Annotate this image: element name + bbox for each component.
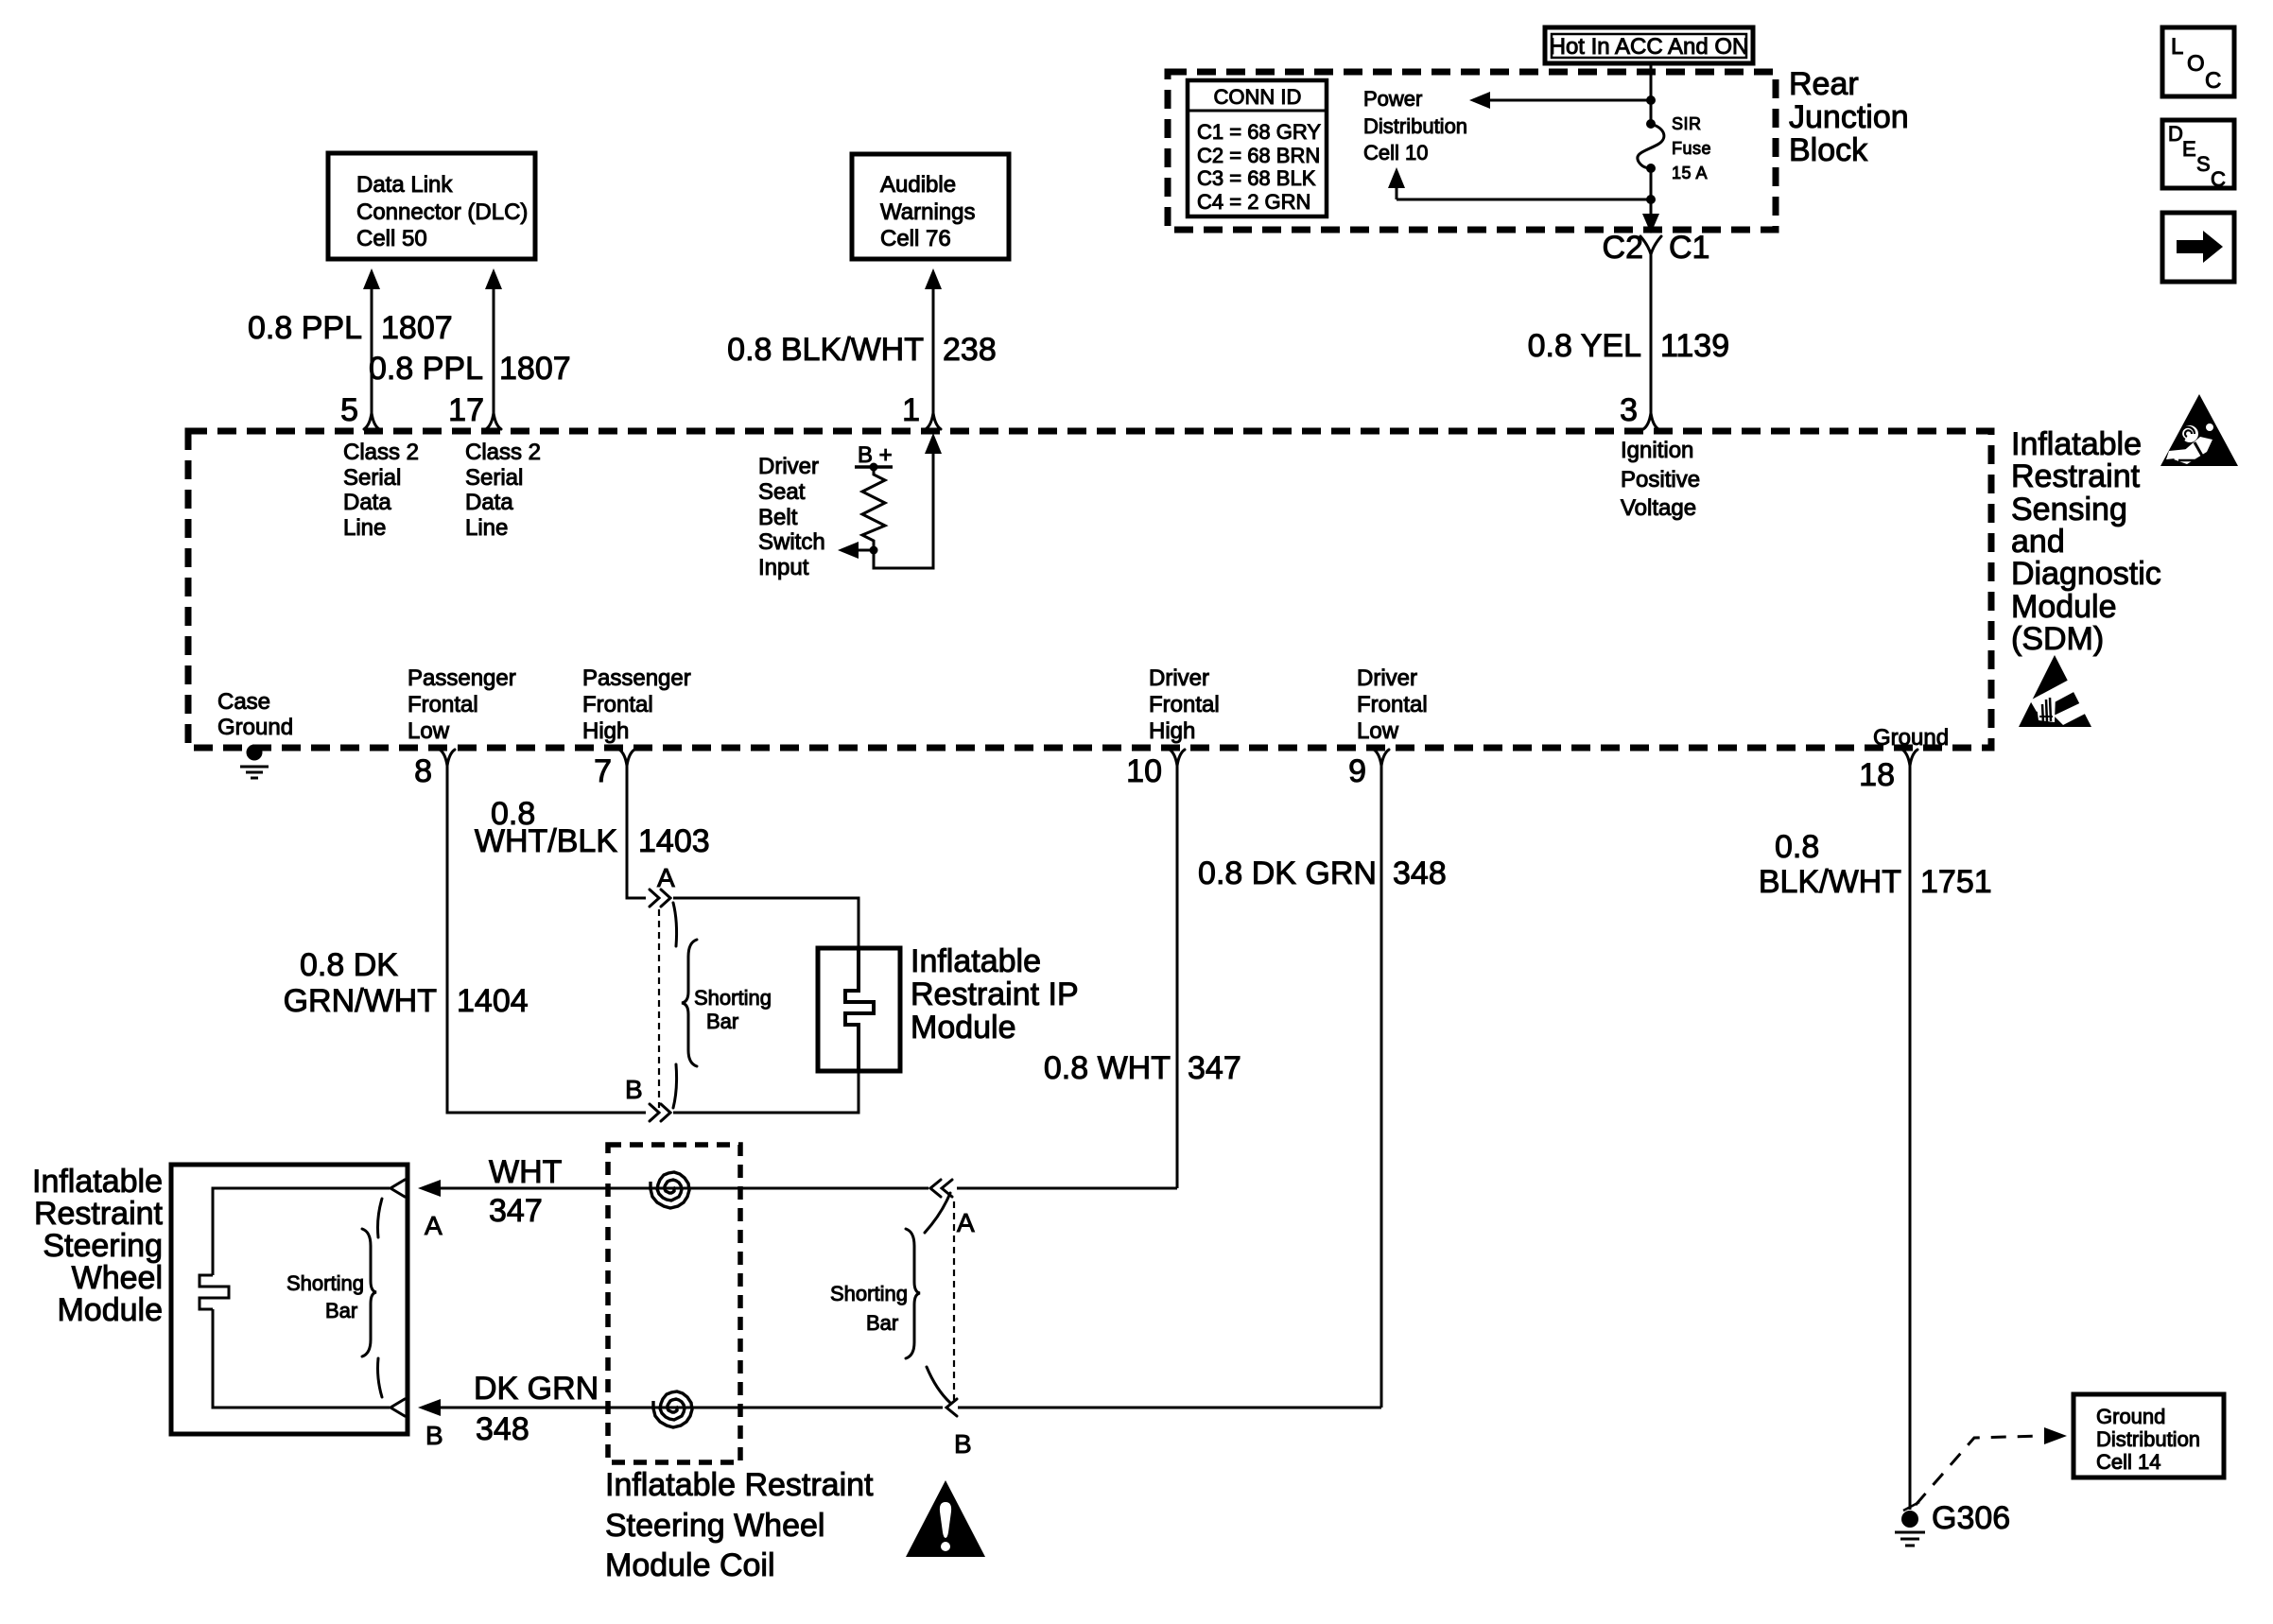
svg-text:C1 = 68 GRY: C1 = 68 GRY — [1197, 120, 1321, 144]
svg-text:348: 348 — [476, 1411, 529, 1447]
svg-text:Line: Line — [465, 515, 508, 541]
svg-text:Line: Line — [343, 515, 386, 541]
svg-text:B: B — [625, 1075, 643, 1104]
svg-text:CONN ID: CONN ID — [1214, 85, 1302, 109]
svg-text:Class 2: Class 2 — [343, 440, 419, 465]
svg-text:Wheel: Wheel — [72, 1260, 163, 1296]
shorting bar dashed line (coil connector) — [953, 1201, 955, 1400]
box: Inflatable Restraint Steering Wheel Module — [32, 1164, 408, 1434]
icon: airbag ESD warning triangle — [2160, 394, 2238, 466]
svg-text:347: 347 — [489, 1193, 543, 1229]
svg-text:Distribution: Distribution — [2096, 1427, 2200, 1451]
wire: arrow to Power Distribution Cell 10 (upper) — [1363, 87, 1651, 164]
svg-text:GRN/WHT: GRN/WHT — [284, 983, 437, 1019]
svg-text:Inflatable: Inflatable — [2011, 426, 2142, 462]
svg-text:Ground: Ground — [217, 715, 293, 740]
wire: pin 10 to coil row A, 0.8 WHT 347 — [1044, 766, 1241, 1188]
wire: fuse to lower junction — [1650, 168, 1653, 216]
box: Hot In ACC And ON — [1545, 27, 1753, 63]
svg-text:C2: C2 — [1603, 230, 1643, 266]
coil: clockspring spiral B — [653, 1391, 692, 1427]
svg-text:C: C — [2211, 167, 2226, 191]
wire: connector A to IP module — [673, 898, 859, 948]
connector: SWM pin A chevron — [378, 1180, 406, 1237]
wire: 0.8 YEL 1139 to SDM pin 3 — [1528, 253, 1730, 413]
svg-text:Cell 14: Cell 14 — [2096, 1450, 2160, 1474]
svg-text:SIR: SIR — [1672, 114, 1702, 133]
svg-text:Steering: Steering — [43, 1228, 163, 1264]
svg-text:Junction: Junction — [1789, 99, 1909, 135]
svg-text:Driver: Driver — [1149, 665, 1209, 691]
brace: shorting bar (SWM) — [286, 1229, 376, 1356]
svg-text:(SDM): (SDM) — [2011, 621, 2104, 657]
svg-text:Block: Block — [1789, 132, 1868, 168]
svg-text:and: and — [2011, 524, 2065, 560]
svg-text:Module: Module — [57, 1292, 163, 1328]
svg-text:DK GRN: DK GRN — [474, 1371, 599, 1407]
svg-text:Input: Input — [758, 555, 809, 580]
svg-text:348: 348 — [1393, 855, 1447, 891]
svg-text:0.8 BLK/WHT: 0.8 BLK/WHT — [727, 332, 924, 368]
svg-text:5: 5 — [340, 392, 358, 428]
svg-text:Low: Low — [408, 718, 450, 744]
svg-text:0.8 PPL: 0.8 PPL — [369, 351, 483, 387]
wire: pin 7, 0.8 WHT/BLK 1403 — [475, 766, 710, 898]
svg-text:Inflatable: Inflatable — [32, 1164, 163, 1200]
svg-text:Data: Data — [465, 490, 513, 515]
svg-text:17: 17 — [448, 392, 484, 428]
svg-text:1: 1 — [902, 392, 920, 428]
svg-text:Restraint IP: Restraint IP — [911, 976, 1079, 1012]
connector B: IP harness (double chevron) — [625, 1064, 677, 1121]
node: junction dot bottom — [1646, 195, 1656, 204]
svg-text:Data: Data — [343, 490, 391, 515]
label: Driver Seat Belt Switch Input — [758, 454, 825, 580]
svg-text:0.8 PPL: 0.8 PPL — [248, 310, 362, 346]
svg-text:B: B — [425, 1421, 443, 1450]
squib: SWM initiator — [200, 1275, 229, 1309]
wire: SDM pin 17 to DLC, 0.8 PPL 1807 — [369, 268, 571, 413]
svg-text:Sensing: Sensing — [2011, 492, 2127, 527]
svg-text:C4 = 2 GRN: C4 = 2 GRN — [1197, 190, 1310, 214]
connector B: coil to column (chevron) — [927, 1367, 972, 1459]
svg-text:A: A — [957, 1208, 975, 1237]
svg-text:Warnings: Warnings — [880, 199, 975, 225]
svg-text:Belt: Belt — [758, 505, 798, 530]
svg-text:Bar: Bar — [866, 1311, 898, 1335]
table: CONN ID — [1188, 80, 1327, 216]
label: Driver Frontal Low (pin 9) — [1357, 665, 1428, 744]
svg-text:Class 2: Class 2 — [465, 440, 541, 465]
svg-text:Cell 10: Cell 10 — [1363, 141, 1428, 164]
svg-text:Distribution: Distribution — [1363, 114, 1467, 138]
brace: shorting bar (IP) — [682, 940, 772, 1066]
wire: pin 18 to G306, 0.8 BLK/WHT 1751 — [1759, 766, 1992, 1510]
svg-text:Shorting: Shorting — [286, 1271, 364, 1295]
svg-text:C3 = 68 BLK: C3 = 68 BLK — [1197, 166, 1316, 190]
svg-text:Voltage: Voltage — [1621, 495, 1696, 521]
svg-text:15 A: 15 A — [1672, 164, 1708, 182]
node: junction dot top — [1646, 95, 1656, 105]
svg-text:1807: 1807 — [381, 310, 453, 346]
svg-text:Power: Power — [1363, 87, 1422, 111]
icon: caution triangle with exclamation — [906, 1480, 985, 1557]
svg-text:0.8 DK: 0.8 DK — [300, 947, 398, 983]
svg-text:Seat: Seat — [758, 479, 806, 505]
wire: arrow to Power Distribution (lower) — [1388, 167, 1651, 199]
svg-text:Passenger: Passenger — [408, 665, 516, 691]
pin 3 connector at SDM — [1620, 392, 1658, 429]
svg-text:B: B — [954, 1429, 972, 1459]
svg-text:S: S — [2196, 152, 2211, 176]
svg-text:347: 347 — [1188, 1050, 1241, 1086]
svg-text:Inflatable: Inflatable — [911, 943, 1041, 979]
svg-text:238: 238 — [943, 332, 997, 368]
svg-text:BLK/WHT: BLK/WHT — [1759, 864, 1901, 900]
svg-text:High: High — [582, 718, 629, 744]
svg-text:Inflatable Restraint: Inflatable Restraint — [605, 1467, 874, 1503]
icon: ESD sensitive device triangle (hand) — [2019, 655, 2096, 727]
wire: row B (DK GRN 348) into steering wheel module — [418, 1371, 1381, 1450]
svg-text:Shorting: Shorting — [694, 986, 772, 1010]
svg-text:Restraint: Restraint — [34, 1196, 164, 1232]
wire: seat belt circuit up to pin 1 — [874, 433, 942, 568]
svg-text:Ignition: Ignition — [1621, 438, 1693, 463]
svg-text:Shorting: Shorting — [830, 1282, 908, 1305]
svg-text:Ground: Ground — [2096, 1405, 2165, 1428]
svg-text:Positive: Positive — [1621, 467, 1700, 492]
svg-text:Fuse: Fuse — [1672, 139, 1711, 158]
svg-text:Diagnostic: Diagnostic — [2011, 556, 2161, 592]
svg-text:Restraint: Restraint — [2011, 458, 2141, 494]
svg-text:1404: 1404 — [457, 983, 529, 1019]
shorting bar dashed line (IP connector) — [658, 909, 660, 1108]
pin 1 connector at SDM — [902, 392, 941, 429]
icon: LOC box — [2162, 27, 2234, 96]
ground: case ground symbol — [240, 745, 269, 779]
box: Data Link Connector (DLC) Cell 50 — [328, 153, 535, 259]
svg-text:C2 = 68 BRN: C2 = 68 BRN — [1197, 144, 1320, 167]
wire: SWM inner circuit top (A) — [213, 1188, 390, 1275]
svg-text:18: 18 — [1859, 757, 1895, 793]
wire: arrow down to C2 connector — [1642, 214, 1659, 233]
svg-text:Module: Module — [911, 1010, 1016, 1045]
label: Passenger Frontal High (pin 7) — [582, 665, 691, 744]
pin 5 connector at SDM — [340, 392, 379, 429]
wire: pin 9 to coil row B, 0.8 DK GRN 348 — [1198, 766, 1447, 1408]
connector: SWM pin B chevron — [378, 1358, 406, 1416]
svg-text:WHT/BLK: WHT/BLK — [475, 823, 617, 859]
svg-text:1751: 1751 — [1920, 864, 1992, 900]
svg-text:High: High — [1149, 718, 1195, 744]
dashed box: Inflatable Restraint Sensing and Diagnostic Module (SDM) — [188, 426, 2161, 748]
svg-text:A: A — [657, 863, 675, 892]
svg-text:Serial: Serial — [343, 465, 401, 491]
label: Passenger Frontal Low (pin 8) — [408, 665, 516, 744]
svg-text:Module: Module — [2011, 589, 2117, 625]
pin 8 connector — [414, 750, 455, 789]
svg-text:Switch: Switch — [758, 529, 825, 555]
box: Inflatable Restraint IP Module — [818, 943, 1079, 1071]
icon: forward arrow box — [2162, 213, 2234, 282]
svg-text:1807: 1807 — [499, 351, 571, 387]
ground: G306 — [1895, 1500, 2010, 1546]
svg-text:0.8 YEL: 0.8 YEL — [1528, 328, 1641, 364]
svg-text:0.8 DK GRN: 0.8 DK GRN — [1198, 855, 1377, 891]
B+ terminal of seat belt switch pull-up — [855, 442, 893, 472]
svg-text:Driver: Driver — [758, 454, 819, 479]
label: Class 2 Serial Data Line (pin 5) — [343, 440, 419, 541]
label: Case Ground — [217, 689, 293, 740]
wire: SDM pin 1 to Audible Warnings, 0.8 BLK/WHT 238 — [727, 268, 997, 413]
svg-text:Serial: Serial — [465, 465, 523, 491]
svg-text:L: L — [2171, 34, 2183, 60]
svg-text:Passenger: Passenger — [582, 665, 691, 691]
wire: pin 8, 0.8 DK GRN/WHT 1404 — [284, 766, 646, 1113]
svg-text:Frontal: Frontal — [582, 692, 653, 717]
svg-text:Rear: Rear — [1789, 66, 1859, 102]
wire: from Hot In ACC into junction block — [1650, 63, 1653, 124]
pin 17 connector at SDM — [448, 392, 501, 429]
svg-text:C: C — [2205, 68, 2221, 94]
resistor: seat belt switch pull-up — [862, 467, 885, 546]
pin 7 connector — [594, 750, 634, 789]
svg-text:Connector (DLC): Connector (DLC) — [356, 199, 528, 225]
svg-text:Steering Wheel: Steering Wheel — [605, 1508, 824, 1544]
connector A: IP harness (double chevron) — [650, 863, 677, 946]
wire: SDM pin 5 to DLC, 0.8 PPL 1807 — [248, 268, 453, 413]
svg-text:Cell 50: Cell 50 — [356, 226, 427, 251]
label: Ignition Positive Voltage (pin 3) — [1621, 438, 1700, 521]
svg-text:WHT: WHT — [489, 1154, 562, 1190]
svg-text:C1: C1 — [1669, 230, 1709, 266]
box: Audible Warnings Cell 76 — [852, 154, 1009, 259]
pin 18 connector — [1859, 750, 1917, 793]
connector: C2 / C1 inline — [1603, 230, 1710, 266]
svg-text:7: 7 — [594, 753, 612, 789]
connector A: coil to column (double chevron) — [925, 1180, 975, 1237]
svg-text:O: O — [2187, 51, 2205, 77]
svg-text:Module Coil: Module Coil — [605, 1547, 775, 1583]
wire: IP module bottom to connector B — [673, 1071, 859, 1113]
label: Driver Frontal High (pin 10) — [1149, 665, 1220, 744]
svg-text:0.8: 0.8 — [1775, 829, 1819, 865]
svg-text:Frontal: Frontal — [1149, 692, 1220, 717]
svg-text:8: 8 — [414, 753, 432, 789]
svg-text:Hot In ACC And ON: Hot In ACC And ON — [1550, 34, 1749, 60]
svg-text:0.8 WHT: 0.8 WHT — [1044, 1050, 1171, 1086]
pin 9 connector — [1348, 750, 1389, 789]
svg-text:Low: Low — [1357, 718, 1399, 744]
svg-text:1139: 1139 — [1660, 328, 1729, 364]
svg-text:Bar: Bar — [706, 1010, 738, 1033]
svg-text:1403: 1403 — [638, 823, 710, 859]
dashed box: Inflatable Restraint Steering Wheel Module Coil — [605, 1145, 874, 1583]
svg-text:Audible: Audible — [880, 172, 956, 198]
svg-text:Case: Case — [217, 689, 270, 715]
svg-text:D: D — [2168, 122, 2183, 146]
brace: shorting bar (coil connector) — [830, 1229, 920, 1358]
svg-text:G306: G306 — [1932, 1500, 2010, 1536]
svg-text:Ground: Ground — [1873, 725, 1949, 751]
fuse: SIR Fuse 15 A — [1638, 114, 1711, 182]
pin 10 connector — [1126, 750, 1185, 789]
svg-text:A: A — [425, 1211, 442, 1240]
squib: IP module initiator — [845, 948, 874, 1071]
svg-text:3: 3 — [1620, 392, 1638, 428]
node: resistor bottom junction — [870, 546, 878, 555]
svg-text:10: 10 — [1126, 753, 1162, 789]
wire: SWM inner circuit bottom (B) — [213, 1309, 390, 1408]
svg-text:Frontal: Frontal — [408, 692, 478, 717]
svg-text:Cell 76: Cell 76 — [880, 226, 951, 251]
svg-text:9: 9 — [1348, 753, 1366, 789]
dashed wire: G306 to Ground Distribution — [1916, 1427, 2067, 1505]
wire: arrow to driver seat belt switch input — [838, 542, 874, 559]
svg-text:Frontal: Frontal — [1357, 692, 1428, 717]
svg-text:Data Link: Data Link — [356, 172, 453, 198]
svg-text:Driver: Driver — [1357, 665, 1417, 691]
icon: DESC box — [2162, 120, 2234, 191]
svg-text:Bar: Bar — [325, 1299, 357, 1322]
coil: clockspring spiral A — [651, 1172, 689, 1208]
svg-text:E: E — [2182, 137, 2196, 161]
dashed box: Rear Junction Block — [1168, 66, 1909, 230]
wire: row A (WHT 347) into steering wheel module — [418, 1154, 1177, 1240]
label: Class 2 Serial Data Line (pin 17) — [465, 440, 541, 541]
box: Ground Distribution Cell 14 — [2073, 1394, 2224, 1477]
